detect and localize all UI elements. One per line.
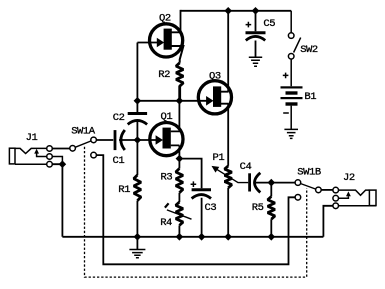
svg-text:R1: R1 xyxy=(118,184,130,196)
svg-text:R5: R5 xyxy=(252,202,264,214)
svg-text:J2: J2 xyxy=(343,172,355,184)
svg-text:C2: C2 xyxy=(113,112,125,124)
svg-text:SW1A: SW1A xyxy=(71,125,96,137)
svg-text:SW2: SW2 xyxy=(300,44,318,56)
svg-text:R2: R2 xyxy=(158,69,170,81)
svg-text:R4: R4 xyxy=(160,217,172,229)
svg-text:SW1B: SW1B xyxy=(297,166,321,178)
svg-text:C1: C1 xyxy=(113,155,125,167)
svg-text:Q3: Q3 xyxy=(209,70,221,82)
svg-text:P1: P1 xyxy=(213,152,225,164)
svg-text:C3: C3 xyxy=(205,202,217,214)
svg-text:R3: R3 xyxy=(161,171,173,183)
svg-text:Q2: Q2 xyxy=(159,12,171,24)
svg-text:C4: C4 xyxy=(240,161,252,173)
svg-text:Q1: Q1 xyxy=(161,111,173,123)
svg-text:B1: B1 xyxy=(304,91,316,103)
svg-text:C5: C5 xyxy=(263,18,275,30)
svg-text:J1: J1 xyxy=(26,132,38,144)
